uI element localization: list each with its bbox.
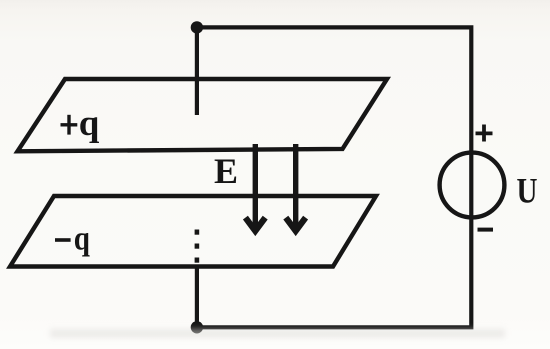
svg-text:E: E xyxy=(214,151,238,191)
svg-text:q: q xyxy=(79,103,100,144)
svg-text:q: q xyxy=(74,220,90,257)
svg-text:U: U xyxy=(517,171,538,211)
